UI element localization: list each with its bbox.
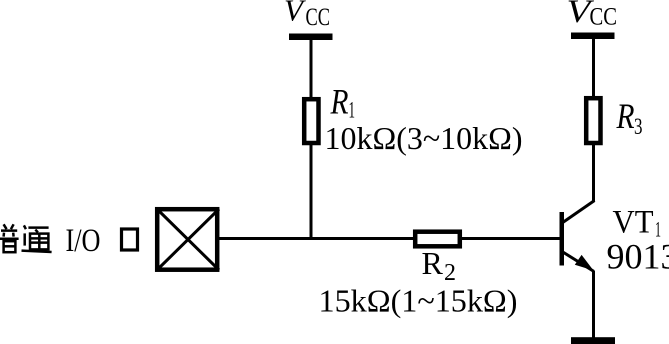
svg-text:R: R (422, 245, 444, 281)
glyph 通 (22, 225, 52, 252)
resistor R2 (415, 232, 460, 247)
svg-text:VT: VT (613, 205, 654, 241)
svg-text:CC: CC (306, 4, 331, 31)
svg-text:15kΩ(1~15kΩ): 15kΩ(1~15kΩ) (319, 284, 518, 319)
svg-text:3: 3 (634, 114, 643, 139)
wire VCC bar to R3 top (592, 39, 595, 98)
wire R1 bottom to node (310, 143, 313, 240)
label R3 (616, 96, 643, 139)
svg-text:10kΩ(3~10kΩ): 10kΩ(3~10kΩ) (325, 121, 523, 156)
wire emitter down (592, 271, 595, 339)
glyph 普 (0, 224, 19, 252)
svg-text:R: R (616, 96, 635, 136)
base bar (560, 212, 565, 266)
svg-text:V: V (284, 0, 306, 28)
svg-text:9013: 9013 (607, 237, 669, 277)
wire R2 to transistor base (460, 237, 561, 240)
emitter arrowhead (575, 255, 594, 271)
label VT1 (613, 205, 662, 242)
resistor R3 (586, 98, 600, 143)
wire VCC bar to R1 top (310, 40, 313, 99)
resistor R1 (304, 99, 318, 143)
svg-text:R: R (330, 82, 349, 122)
glyph 口 (122, 229, 138, 250)
label R2 (422, 245, 457, 286)
svg-text:CC: CC (590, 4, 618, 31)
power bar VCC (right) (571, 33, 615, 40)
bottom power bar (571, 337, 615, 344)
svg-text:I/O: I/O (66, 223, 101, 259)
svg-text:2: 2 (444, 260, 456, 286)
I/O port box with X (157, 209, 219, 270)
text 普通 I/O 口 (drawn as strokes; CJK glyphs unavailable) (0, 224, 52, 252)
net VCC label (right) (567, 0, 618, 31)
wire R3 bottom to collector bend (592, 143, 595, 202)
label R1 (330, 82, 355, 123)
wire box to R2 (219, 237, 415, 240)
power bar VCC (left) (289, 34, 333, 41)
net VCC label (left) (284, 0, 330, 31)
emitter diagonal (562, 252, 594, 272)
svg-text:1: 1 (349, 98, 356, 123)
transistor VT1 (560, 201, 595, 272)
collector diagonal (562, 201, 595, 224)
